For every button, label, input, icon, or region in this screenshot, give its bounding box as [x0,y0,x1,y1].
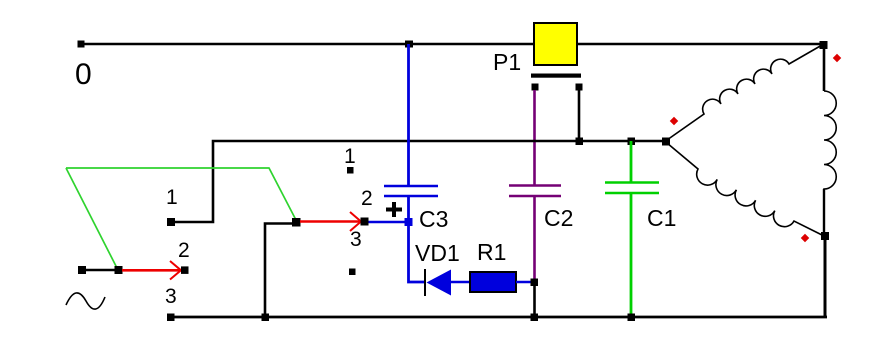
capacitor C2 bottom plate [509,195,561,197]
red arrow wire to terminal 2 left [122,269,180,272]
wire black from P1 right contact to mid rail [578,90,581,141]
wire mid rail [173,141,666,222]
svg-text:P1: P1 [493,49,521,75]
wire black node down to bottom rail [533,284,536,317]
svg-text:1: 1 [344,145,356,168]
capacitor C1 top plate [605,181,659,183]
green phase line left slant [66,168,118,270]
wire purple C2 top [533,90,536,186]
node black L junction [292,218,301,227]
terminal 1 left node [167,218,175,226]
AC sine symbol [66,293,105,309]
motor delta top-right node [820,41,828,49]
wire blue from terminal 2 [367,221,408,224]
red arrowhead mid [350,212,361,231]
svg-text:0: 0 [75,58,92,91]
node bottom rail junction x265 [262,314,270,322]
contact bar under P1 [531,74,581,78]
motor winding right (vertical) [824,91,836,233]
svg-text:2: 2 [178,239,190,262]
red arrow wire to mid terminal 2 [300,220,360,223]
node bottom rail junction x534 [531,314,539,322]
node on mid rail at C1 branch [628,138,636,146]
wire black L to bottom rail [265,224,294,318]
node blue junction at terminal2 branch [405,218,413,226]
red arrowhead left [170,261,181,280]
svg-text:R1: R1 [477,239,506,265]
node start of rail 0 [78,41,85,48]
motor winding top (left vertex to top-right) [667,45,822,140]
diode VD1 triangle [427,270,452,296]
node on mid rail at P1 branch [576,138,584,146]
node bottom rail junction C1 [628,314,636,322]
wire blue below C3 to diode row [409,196,426,282]
node under bar right [576,84,583,91]
terminal 2 left node [181,266,189,274]
wire blue R1 to node [516,281,534,284]
green phase line top [66,168,296,220]
wire green C1 bottom [630,193,633,317]
wire top rail 0 [81,43,824,46]
svg-text:2: 2 [361,187,373,210]
source stub node [78,266,86,274]
phase dot left winding [670,117,678,125]
svg-text:3: 3 [165,285,177,308]
wire right side down from bottom node [824,236,827,317]
capacitor C2 top plate [509,184,561,186]
capacitor C3 top plate [384,185,438,187]
svg-text:C1: C1 [647,205,676,231]
motor delta bottom-right node [821,232,829,240]
wire bottom rail [171,316,827,319]
phase dot bottom winding [801,234,809,242]
mid pin dot 1 [347,167,354,174]
resistor R1 [470,272,516,292]
wire purple C2 bottom [533,196,536,280]
mid pin dot 3 [349,269,356,276]
wire source stub [84,269,116,272]
plus polarity mark for C3 [386,202,402,217]
node junction blue branch on rail 0 [405,41,413,48]
node green junction left [115,266,123,274]
wire blue main vertical [407,44,410,186]
svg-text:3: 3 [350,228,362,251]
svg-text:VD1: VD1 [415,240,460,266]
phase dot top winding [833,54,841,62]
wire from winding to bottom-right node [823,189,825,234]
wire green C1 top [630,141,633,183]
wire from top-right node down to winding [823,46,826,91]
capacitor C1 bottom plate [605,192,659,194]
node R1/C2 junction [531,279,539,287]
wire blue diode to R1 [451,281,470,284]
motor delta left vertex node [662,138,670,146]
fuse P1 yellow body [534,23,577,65]
terminal 3 node [167,314,175,322]
mid terminal 2 node [361,218,369,226]
svg-text:1: 1 [166,186,178,209]
diode VD1 cathode bar [424,269,426,296]
svg-text:C2: C2 [544,205,573,231]
node under bar left [532,84,539,91]
motor winding bottom (left vertex to bottom-right) [667,143,822,235]
svg-text:C3: C3 [419,206,448,232]
capacitor C3 bottom plate [384,195,438,197]
